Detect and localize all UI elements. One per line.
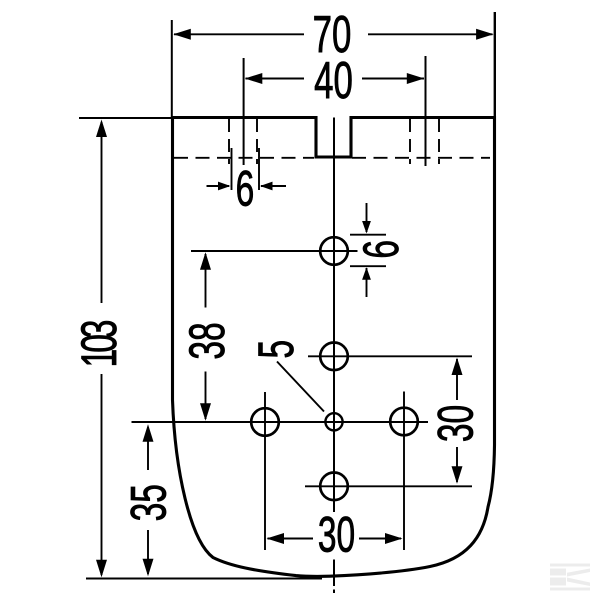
svg-text:40: 40 <box>314 52 353 110</box>
arrow 6 slot right <box>260 182 273 191</box>
extension line slot width right <box>258 148 260 190</box>
watermark logo K upper arm <box>567 569 590 577</box>
watermark logo bottom bar <box>550 588 590 591</box>
dim line 30 bottom <box>268 538 402 540</box>
hole left <box>251 408 279 436</box>
svg-text:6: 6 <box>353 240 409 259</box>
hidden slot right edge 2 (dashed) <box>438 119 440 164</box>
watermark logo K left block upper <box>550 569 566 576</box>
arrow 30 bottom right <box>385 533 403 544</box>
hole bottom <box>320 473 348 501</box>
arrow 38 bottom <box>200 403 211 421</box>
arrow 103 top <box>96 120 107 138</box>
extension line hole diam bottom <box>350 265 386 267</box>
dim line 70 <box>174 33 493 35</box>
svg-text:5: 5 <box>248 340 304 359</box>
extension line 70 left <box>171 20 173 118</box>
extension line 40 left <box>243 58 245 165</box>
dim line 40 <box>246 78 425 80</box>
plate outline <box>173 118 495 577</box>
dim line 6 hole diam <box>366 203 368 297</box>
hidden depth line right (dashed) <box>352 157 490 159</box>
svg-text:35: 35 <box>121 484 177 521</box>
arrow 6 diam top <box>362 221 371 234</box>
dim line 6 slot <box>207 185 287 187</box>
arrow 40 right <box>407 73 425 84</box>
arrow 103 bottom <box>96 560 107 578</box>
center line (vertical axis) <box>333 118 335 594</box>
dim line 35 <box>147 427 149 574</box>
arrow 38 top <box>200 252 211 270</box>
hole right <box>390 408 418 436</box>
hidden slot left edge 2 (dashed) <box>256 119 258 164</box>
row line middle holes <box>132 421 429 423</box>
extension line 70 right <box>494 12 496 118</box>
svg-text:103: 103 <box>71 321 127 368</box>
arrow 35 top <box>143 424 154 442</box>
row line hole middle <box>308 355 472 357</box>
extension line slot width left <box>231 148 233 190</box>
extension line 103 bottom <box>86 578 322 580</box>
arrow 70 left <box>173 29 191 40</box>
row line hole bottom <box>305 485 472 487</box>
extension line 40 right <box>425 56 427 166</box>
watermark logo K left block lower <box>550 578 566 586</box>
arrow 30 right bottom <box>452 466 463 484</box>
hidden slot left edge (dashed) <box>228 119 230 164</box>
arrow 6 slot left <box>218 182 231 191</box>
dim line 30 right <box>456 359 458 482</box>
arrow 35 bottom <box>143 559 154 577</box>
svg-text:6: 6 <box>236 160 255 216</box>
arrow 30 right top <box>452 358 463 376</box>
leader line 5mm hole <box>277 362 324 412</box>
arrow 6 diam bottom <box>362 267 371 280</box>
hole middle <box>320 343 348 371</box>
arrow 40 left <box>245 73 262 84</box>
svg-text:30: 30 <box>318 507 355 563</box>
hole center small (5mm) <box>325 413 342 430</box>
arrow 30 bottom left <box>267 533 285 544</box>
dim line 38 <box>205 254 207 419</box>
tick right hole vertical <box>403 392 405 551</box>
hidden slot right edge (dashed) <box>409 119 411 164</box>
hidden depth line left (dashed) <box>174 157 314 159</box>
hole top (6mm) <box>320 237 348 265</box>
watermark logo K lower arm <box>567 578 590 587</box>
watermark logo top bar <box>550 564 590 567</box>
dim line 103 <box>101 122 103 575</box>
tick left hole vertical <box>264 392 266 550</box>
svg-text:38: 38 <box>179 322 235 359</box>
extension line hole diam top <box>350 234 386 236</box>
arrow 70 right <box>476 29 494 40</box>
row line hole top <box>191 250 358 252</box>
svg-text:30: 30 <box>428 405 484 442</box>
extension line 103 top <box>79 117 172 119</box>
